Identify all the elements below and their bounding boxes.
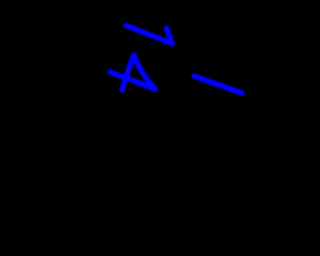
checkmark stroke (short arm) (167, 28, 173, 44)
line segment (194, 76, 242, 93)
triangle left side (122, 55, 134, 90)
triangle right side (134, 55, 155, 89)
triangle bottom side (110, 72, 155, 89)
checkmark stroke (long arm) (126, 26, 172, 44)
black drawing canvas (0, 0, 256, 256)
